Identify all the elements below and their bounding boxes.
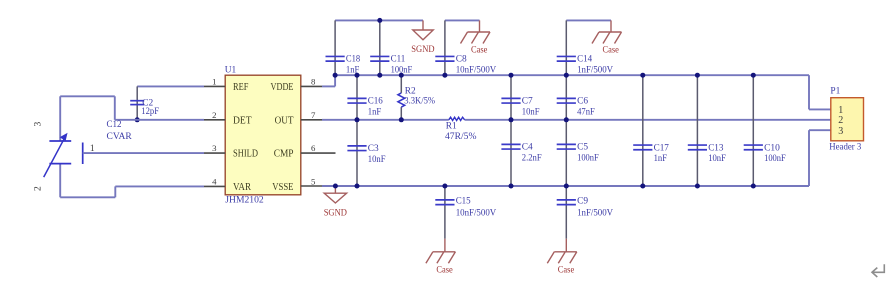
svg-text:3.3K/5%: 3.3K/5%	[404, 96, 435, 106]
svg-text:7: 7	[311, 110, 316, 120]
svg-text:2: 2	[838, 115, 843, 126]
svg-text:100nF: 100nF	[577, 153, 599, 163]
svg-text:1nF/500V: 1nF/500V	[577, 65, 613, 75]
svg-text:Case: Case	[603, 45, 619, 56]
svg-text:10nF/500V: 10nF/500V	[456, 65, 497, 75]
svg-text:C18: C18	[346, 55, 361, 65]
svg-text:10nF: 10nF	[708, 154, 726, 164]
svg-text:C11: C11	[391, 55, 406, 65]
svg-text:R2: R2	[405, 86, 416, 96]
svg-text:47R/5%: 47R/5%	[445, 132, 477, 142]
svg-text:10nF: 10nF	[522, 107, 540, 117]
svg-text:1nF: 1nF	[654, 154, 667, 164]
svg-text:100nF: 100nF	[764, 154, 786, 164]
svg-text:6: 6	[311, 143, 316, 153]
svg-text:10nF/500V: 10nF/500V	[456, 209, 497, 219]
svg-text:C4: C4	[522, 143, 533, 153]
svg-text:SHILD: SHILD	[233, 149, 258, 160]
svg-text:C7: C7	[522, 97, 533, 107]
svg-text:C9: C9	[577, 197, 588, 207]
svg-text:VSSE: VSSE	[272, 182, 293, 193]
svg-text:2.2nF: 2.2nF	[522, 153, 542, 163]
svg-text:C15: C15	[456, 197, 471, 207]
svg-text:C8: C8	[456, 55, 467, 65]
svg-text:10nF: 10nF	[368, 155, 386, 165]
svg-text:3: 3	[212, 143, 217, 153]
svg-text:C5: C5	[577, 143, 588, 153]
svg-text:SGND: SGND	[324, 207, 347, 218]
svg-text:1nF: 1nF	[368, 107, 381, 117]
svg-text:8: 8	[311, 76, 316, 86]
svg-text:1: 1	[212, 76, 216, 86]
svg-text:47nF: 47nF	[577, 107, 595, 117]
svg-text:1nF/500V: 1nF/500V	[577, 209, 613, 219]
svg-text:C13: C13	[708, 143, 724, 153]
svg-text:3: 3	[34, 122, 44, 127]
svg-text:OUT: OUT	[275, 115, 294, 126]
svg-text:C16: C16	[368, 97, 383, 107]
svg-text:CVAR: CVAR	[107, 132, 133, 142]
svg-text:JHM2102: JHM2102	[225, 196, 264, 206]
svg-text:12pF: 12pF	[141, 107, 159, 117]
svg-text:U1: U1	[225, 65, 237, 75]
svg-text:P1: P1	[830, 87, 840, 97]
svg-text:5: 5	[311, 176, 316, 186]
svg-text:REF: REF	[233, 82, 249, 93]
svg-text:VDDE: VDDE	[271, 82, 294, 93]
svg-text:C6: C6	[577, 97, 588, 107]
svg-text:2: 2	[212, 110, 216, 120]
svg-text:VAR: VAR	[233, 182, 251, 193]
svg-text:C14: C14	[577, 55, 592, 65]
svg-text:Header 3: Header 3	[829, 143, 861, 153]
svg-text:DET: DET	[233, 115, 252, 126]
svg-text:SGND: SGND	[411, 44, 434, 55]
svg-text:Case: Case	[558, 264, 574, 275]
svg-text:C17: C17	[654, 143, 670, 153]
svg-text:1: 1	[90, 144, 95, 154]
svg-text:2: 2	[34, 186, 44, 191]
svg-text:Case: Case	[436, 264, 452, 275]
svg-text:C12: C12	[107, 120, 122, 130]
svg-text:C3: C3	[368, 144, 379, 154]
svg-text:CMP: CMP	[274, 149, 294, 160]
svg-text:4: 4	[212, 176, 217, 186]
svg-text:C10: C10	[764, 143, 780, 153]
svg-text:R1: R1	[446, 122, 457, 132]
svg-text:3: 3	[838, 126, 843, 137]
svg-text:Case: Case	[471, 45, 487, 56]
